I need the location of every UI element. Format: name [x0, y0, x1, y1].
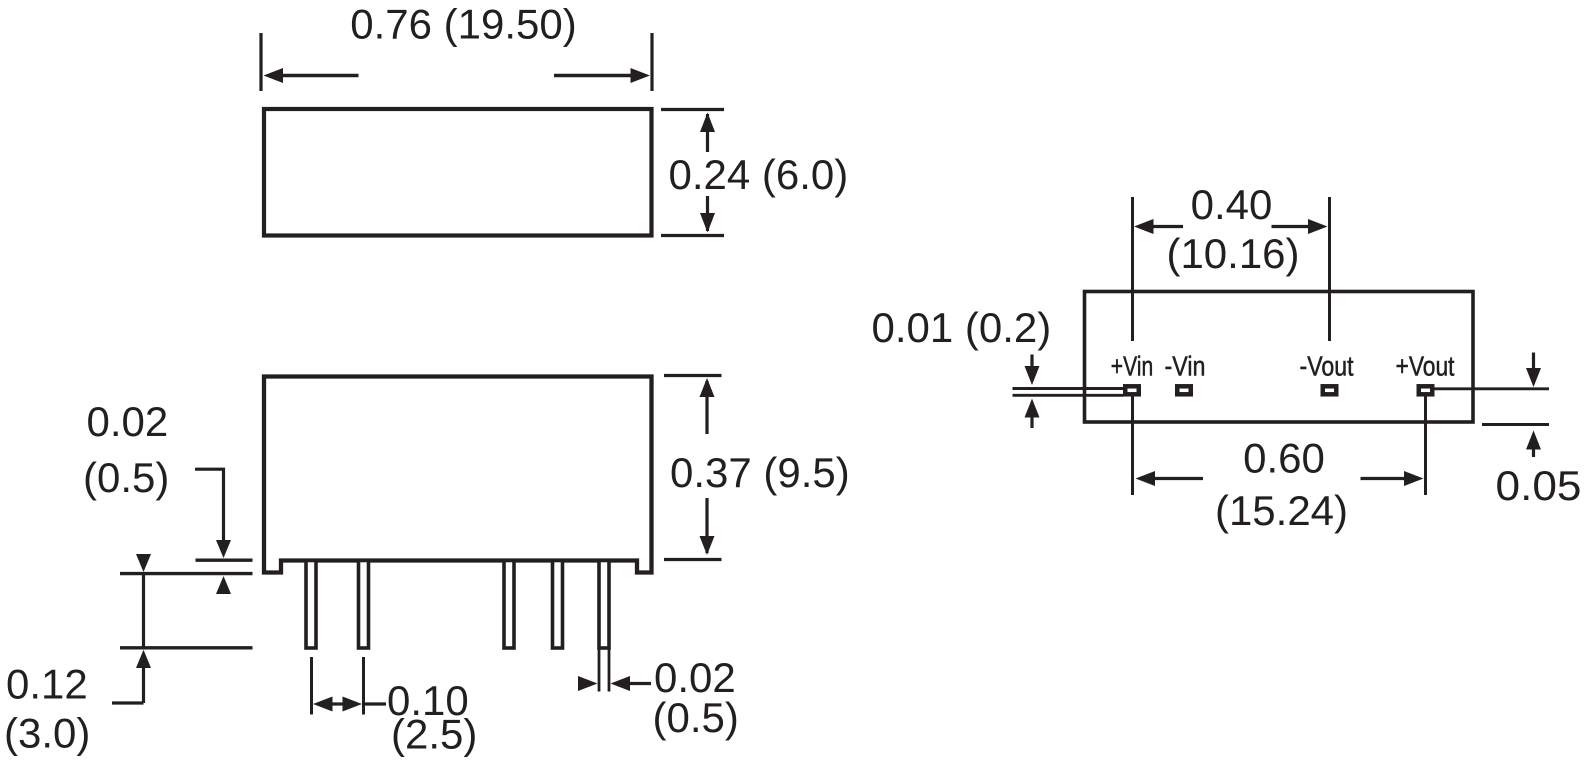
svg-text:(15.24): (15.24): [1215, 487, 1348, 534]
svg-text:(2.5): (2.5): [391, 711, 477, 758]
svg-text:(3.0): (3.0): [4, 710, 90, 757]
svg-text:0.37 (9.5): 0.37 (9.5): [670, 449, 850, 496]
svg-text:-Vin: -Vin: [1165, 351, 1206, 382]
svg-text:0.24 (6.0): 0.24 (6.0): [669, 151, 849, 198]
svg-text:+Vin: +Vin: [1111, 351, 1154, 382]
svg-text:0.02: 0.02: [87, 398, 169, 445]
svg-text:-Vout: -Vout: [1300, 351, 1354, 382]
svg-text:0.40: 0.40: [1191, 181, 1273, 228]
svg-text:0.01 (0.2): 0.01 (0.2): [872, 304, 1052, 351]
svg-text:0.12: 0.12: [6, 661, 88, 708]
svg-text:(0.5): (0.5): [653, 694, 739, 741]
svg-text:(0.5): (0.5): [83, 454, 169, 501]
svg-text:0.60: 0.60: [1243, 435, 1325, 482]
svg-text:+Vout: +Vout: [1396, 351, 1455, 382]
svg-text:0.76 (19.50): 0.76 (19.50): [350, 1, 577, 48]
svg-text:(10.16): (10.16): [1166, 230, 1299, 277]
svg-text:0.05: 0.05: [1496, 462, 1582, 509]
